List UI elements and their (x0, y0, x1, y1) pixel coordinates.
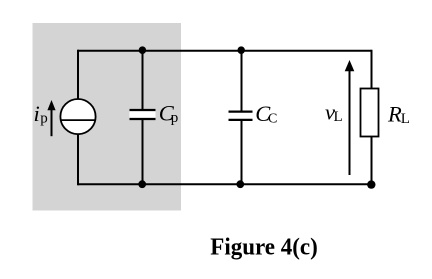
svg-text:L: L (334, 109, 343, 125)
svg-text:C: C (268, 111, 277, 126)
svg-text:Figure 4(c): Figure 4(c) (210, 234, 317, 261)
svg-text:i: i (34, 101, 40, 126)
svg-text:p: p (40, 110, 48, 126)
svg-text:L: L (401, 111, 410, 127)
svg-text:p: p (171, 110, 179, 126)
svg-text:R: R (387, 102, 402, 127)
